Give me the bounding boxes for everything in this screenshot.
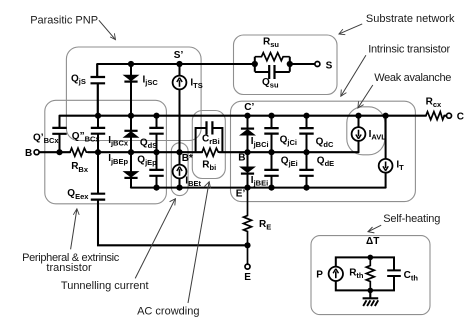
AC crowding box [192,111,225,179]
self-heating box [311,236,430,315]
node dot QdS bottom [153,149,159,155]
terminal E [245,264,250,269]
node dot substrate left [252,61,258,67]
diode IjBEi [241,152,255,187]
wire substrate to S terminal [290,63,315,65]
svg-text:S’: S’ [174,50,184,61]
parasitic PNP region box [66,47,201,141]
wire B'-row [220,151,359,153]
node C' [244,113,250,119]
svg-text:Tunnelling current: Tunnelling current [61,280,149,292]
node dot Q'BCx bottom [56,149,62,155]
node dot IAVL top [355,113,361,119]
svg-text:C: C [457,112,464,123]
svg-text:E: E [244,272,251,283]
svg-text:C’: C’ [244,102,254,113]
intrinsic transistor box [231,101,416,201]
resistor RBx [70,148,88,156]
current source IT [379,116,393,188]
capacitor Q''BCx [91,116,105,153]
diode IjSC [124,64,138,116]
node dot RBx right [95,149,101,155]
peripheral & extrinsic transistor box [45,100,167,204]
svg-text:P: P [316,269,323,280]
capacitor QjCi [264,116,278,153]
svg-text:AC crowding: AC crowding [137,305,199,317]
capacitor Q'BCx [52,116,66,153]
node dot Rth top [368,255,374,261]
arrow Weak avalanche [358,85,373,108]
svg-text:Parasitic PNP: Parasitic PNP [30,14,98,26]
svg-text:B*: B* [182,153,193,164]
node S' [176,61,182,67]
arrow Self-heating [368,225,381,233]
node dot IjBCx top [128,113,134,119]
resistor Rth [366,257,374,290]
capacitor QEex [91,152,105,200]
node dot IT top [383,113,389,119]
node dot IjSC top [128,61,134,67]
wire S-row top [97,63,255,65]
arrow Tunnelling current [135,199,175,279]
current source IAVL [352,116,366,153]
node dot RE bottom junction [244,242,250,248]
self-heating loop / current source P [329,257,394,290]
resistor Rsu [255,53,290,61]
svg-text:Substrate network: Substrate network [366,13,455,25]
arrow Parasitic PNP [99,20,116,39]
node dot Rth bottom [368,288,374,294]
svg-text:Self-heating: Self-heating [383,213,440,225]
arrow AC crowding [188,182,211,303]
node E' [244,185,250,191]
node dot IBEt bottom [176,185,182,191]
arrow Peripheral & extrinsic [71,209,80,250]
capacitor QdC [299,116,313,153]
svg-text:E’: E’ [236,188,246,199]
node dot QdS top [153,113,159,119]
node dot QjEi top [268,149,274,155]
substrate network box [234,35,338,95]
diode IjBEp [124,152,138,187]
node dot QdE bottom [303,185,309,191]
capacitor QdS [149,116,163,153]
arrow Substrate network [339,24,362,35]
capacitor QdE [299,152,313,187]
wire E'-row [131,187,386,189]
thermal ground [363,290,379,306]
svg-text:B’: B’ [238,153,248,164]
node dot QdC top [303,113,309,119]
terminal B [34,150,39,155]
substrate loop verticals [255,57,290,72]
node dot QjEp bottom [153,185,159,191]
diode IjBCx [124,116,138,153]
svg-text:ΔT: ΔT [366,236,379,247]
resistor RE [244,188,252,265]
svg-text:Intrinsic transistor: Intrinsic transistor [368,44,450,56]
resistor Rcx [426,112,444,120]
capacitor QjS [91,64,106,116]
wire R_cx to C terminal [444,115,446,117]
svg-text:transistor: transistor [46,262,92,274]
terminal S [315,62,320,67]
node dot substrate right [287,61,293,67]
wire B terminal to node [39,151,70,153]
node B' [244,149,250,155]
wire Q_Eex bottom return [98,200,248,246]
capacitor QjEi [264,152,278,187]
capacitor CrBi [196,121,223,152]
current source ITS [173,64,187,152]
node dot Q''BCx top [95,113,101,119]
capacitor Cth [387,270,401,276]
svg-text:S: S [326,60,333,71]
wire B-row [88,151,202,153]
arrow Intrinsic transistor [341,55,366,96]
weak avalanche oval [347,107,385,155]
wire C-row [60,115,426,117]
svg-text:B: B [25,148,32,159]
tunnelling current oval [171,143,188,196]
capacitor Qsu [255,65,290,79]
resistor Rbi [202,148,220,156]
node dot IjBCx bottom [128,149,134,155]
current source IBEt [173,152,187,187]
node dot QdE top [303,149,309,155]
node dot QjCi top [268,113,274,119]
node dot QjEi bottom [268,185,274,191]
node B* [176,149,182,155]
diode IjBCi [241,116,255,153]
capacitor QjEp [149,152,163,187]
svg-text:Weak avalanche: Weak avalanche [374,72,451,84]
terminal C [447,113,452,118]
